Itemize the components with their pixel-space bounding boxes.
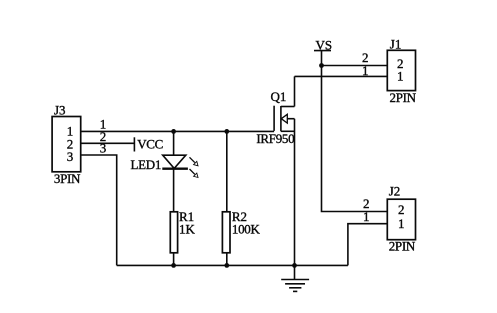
svg-text:3: 3: [100, 141, 107, 156]
svg-text:J3: J3: [54, 103, 66, 118]
svg-text:3: 3: [67, 149, 74, 164]
svg-text:100K: 100K: [232, 222, 261, 237]
svg-text:1: 1: [362, 63, 369, 78]
svg-text:LED1: LED1: [131, 157, 162, 172]
svg-text:VS: VS: [316, 38, 333, 53]
svg-text:IRF950: IRF950: [256, 131, 294, 146]
svg-text:Q1: Q1: [271, 89, 287, 104]
svg-text:J2: J2: [389, 184, 401, 199]
svg-text:1: 1: [397, 69, 404, 84]
svg-text:VCC: VCC: [137, 137, 163, 152]
svg-text:J1: J1: [390, 36, 402, 51]
svg-text:3PIN: 3PIN: [54, 171, 81, 186]
svg-text:1: 1: [363, 209, 370, 224]
svg-text:2PIN: 2PIN: [390, 90, 417, 105]
svg-text:2PIN: 2PIN: [389, 238, 416, 253]
svg-text:2: 2: [398, 202, 405, 217]
svg-text:1: 1: [398, 216, 405, 231]
svg-text:1K: 1K: [179, 222, 196, 237]
